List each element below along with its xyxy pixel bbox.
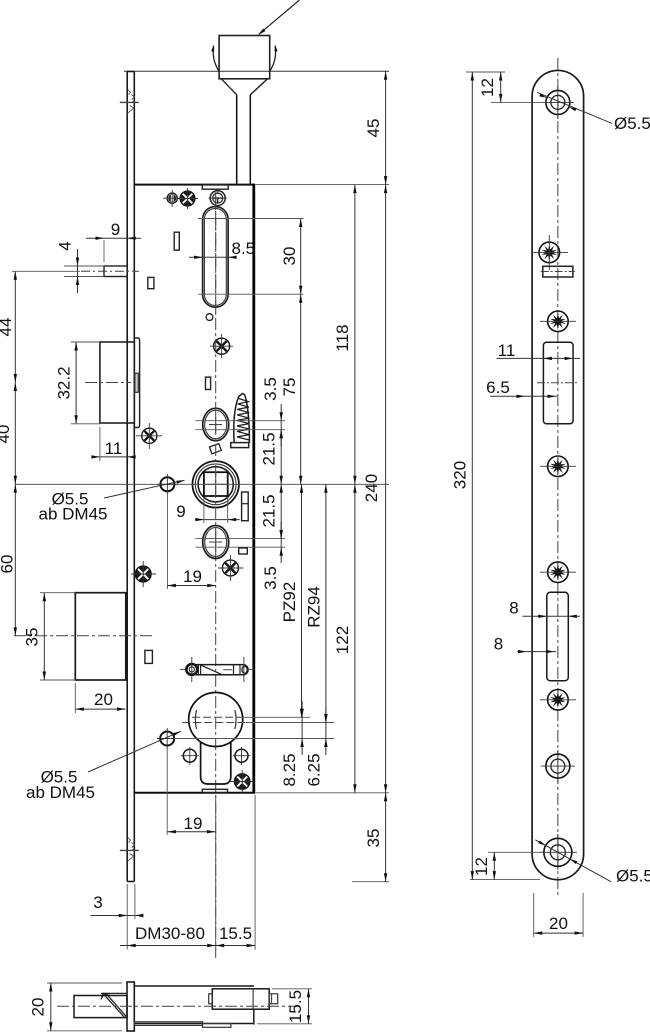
guide slot rect <box>242 492 249 521</box>
svg-text:60: 60 <box>0 555 17 574</box>
ext pin top <box>64 265 105 267</box>
dim 20 bv <box>50 983 52 1031</box>
ext 3 right <box>134 884 136 919</box>
dim 21.5 upper <box>280 430 282 485</box>
leader D5.5 upper <box>104 480 185 498</box>
cylinder stem <box>201 742 231 784</box>
ext RZ line <box>246 722 334 724</box>
svg-text:20: 20 <box>94 690 113 709</box>
screw S4 phillips <box>214 338 230 354</box>
dim 8 upper plate <box>522 615 579 617</box>
upper ellipse inner <box>205 410 227 439</box>
follower outer circle <box>193 461 239 507</box>
screw S3 slotted <box>210 191 225 206</box>
diamond tab <box>209 444 221 454</box>
bottom tab plate <box>202 789 227 793</box>
bv cylinder bump <box>212 989 269 1009</box>
dim 40 <box>14 383 16 485</box>
tab rect C <box>206 377 211 389</box>
svg-text:8.5: 8.5 <box>232 239 256 258</box>
ext hole bottom line <box>488 851 543 853</box>
bv body top edge <box>134 985 254 987</box>
plate torx 4 <box>548 562 569 583</box>
cylinder RZ chord <box>182 722 246 724</box>
ext line 3.5 lower B <box>195 546 285 548</box>
dim 15.5 bv <box>308 989 310 1024</box>
ext 35 top <box>40 592 75 594</box>
vertical centerline x215.7 <box>215 192 217 958</box>
plate slot A <box>543 266 573 277</box>
faceplate strip bottom edge <box>127 881 134 883</box>
leader D5.5 top <box>537 92 612 123</box>
plate slot A centerline <box>541 271 575 273</box>
bv bottom notch <box>203 1024 231 1028</box>
dim 15.5 bottom <box>216 945 255 947</box>
lock case right edge <box>252 184 255 794</box>
deadbolt <box>75 593 126 680</box>
latch tail pin <box>135 373 138 392</box>
ext 20 plate right <box>582 893 584 937</box>
upper oval slot inner <box>204 208 226 305</box>
lever capsule <box>186 665 248 675</box>
upper ellipse outer <box>203 408 229 441</box>
screw S2 torx dark <box>180 191 195 206</box>
ext dm x255 <box>254 795 256 950</box>
dim 3 <box>91 915 144 917</box>
ext case top <box>256 184 390 186</box>
plate torx 2 <box>548 311 569 332</box>
dim PZ92 <box>301 484 303 717</box>
spindle rod left <box>236 95 238 185</box>
oval arc center line bottom <box>198 293 304 295</box>
ext 9sq left <box>203 497 205 523</box>
plate latch window centerline <box>537 382 579 384</box>
ext 12 top line <box>466 71 505 73</box>
ext 19 lower left <box>166 747 168 836</box>
bv bump tab left <box>209 994 213 1004</box>
bv ext 15.5 top <box>272 988 312 990</box>
svg-text:11: 11 <box>105 439 123 458</box>
lever right cap <box>242 666 247 673</box>
svg-text:ab DM45: ab DM45 <box>39 505 108 524</box>
svg-text:19: 19 <box>183 567 202 586</box>
svg-text:Ø5.5: Ø5.5 <box>616 867 650 886</box>
ext dm x215.7 <box>215 795 217 950</box>
dim 8.5 <box>189 256 236 258</box>
ext dm x127 <box>126 919 128 950</box>
dim 6.25 <box>325 706 327 755</box>
svg-text:3.5: 3.5 <box>261 566 280 590</box>
svg-text:PZ92: PZ92 <box>280 582 299 623</box>
dim 35 deadbolt <box>43 593 45 680</box>
screw S8 dark phillips <box>234 774 250 790</box>
svg-text:9: 9 <box>111 220 120 239</box>
dim 32.2 <box>75 342 77 424</box>
lower ellipse outer <box>203 526 229 559</box>
svg-text:3: 3 <box>93 893 102 912</box>
svg-text:35: 35 <box>364 829 383 848</box>
dim 20 deadbolt <box>75 708 125 710</box>
dim 19 lower <box>167 831 215 833</box>
svg-text:4: 4 <box>56 241 75 250</box>
faceplate strip right edge <box>133 72 135 882</box>
upper oval centerline <box>215 196 217 316</box>
tab rect B <box>148 277 154 288</box>
dim 12 top <box>500 72 502 102</box>
latch centerline <box>85 382 131 384</box>
bv centerline <box>57 1005 300 1007</box>
dim 12 bottom <box>493 852 495 879</box>
dim 11 latch <box>92 456 135 458</box>
svg-text:6.25: 6.25 <box>305 753 324 786</box>
svg-text:8: 8 <box>494 635 503 654</box>
ext 44 top <box>12 270 80 272</box>
ext 35 bottom <box>40 679 75 681</box>
ext hole top line <box>491 101 546 103</box>
dim 118 <box>354 185 356 485</box>
svg-text:118: 118 <box>333 324 352 351</box>
spring <box>234 394 250 444</box>
plate ring screw <box>546 754 570 778</box>
screw S1 dark <box>167 193 177 203</box>
svg-text:12: 12 <box>478 78 497 97</box>
dim 20 plate <box>534 932 583 934</box>
follower square hole <box>204 472 228 496</box>
top step plate <box>202 185 228 190</box>
svg-text:19: 19 <box>184 814 203 833</box>
spring foot plate <box>231 443 249 448</box>
cylinder arc mark left <box>195 710 196 729</box>
svg-text:44: 44 <box>0 318 15 337</box>
svg-text:8: 8 <box>509 599 518 618</box>
dim 320 <box>471 72 473 880</box>
cylinder circle <box>189 693 243 747</box>
dim 122 <box>354 484 356 793</box>
faceplate strip top edge <box>127 71 134 73</box>
upper oval slot outer <box>203 207 229 308</box>
spindle funnel left <box>221 79 236 95</box>
break mark bottom <box>120 838 139 862</box>
bv bump tab right <box>269 994 278 1004</box>
lower ellipse inner <box>205 528 227 557</box>
bv ext 20 bottom <box>47 1030 122 1032</box>
ellipse tick <box>215 414 217 433</box>
svg-text:8.25: 8.25 <box>280 753 299 786</box>
lock case top edge <box>134 184 254 186</box>
svg-text:15.5: 15.5 <box>219 924 252 943</box>
tab rect A <box>174 232 179 250</box>
lower ellipse tick <box>215 531 217 552</box>
ext 3 left <box>126 884 128 919</box>
svg-text:3.5: 3.5 <box>261 377 280 401</box>
cap rotation arrow left <box>213 46 219 72</box>
small circle below oval <box>206 314 213 321</box>
svg-text:30: 30 <box>280 247 299 266</box>
screw S6 phillips <box>222 560 238 576</box>
svg-text:240: 240 <box>362 474 381 502</box>
follower crosshair <box>203 483 229 485</box>
latch bottom extension <box>71 423 100 425</box>
plate top hole ticks <box>542 101 574 103</box>
leader D5.5 lower <box>88 731 181 772</box>
dim 240 <box>385 185 387 793</box>
plate top hole <box>546 90 570 114</box>
latch bolt <box>100 342 134 423</box>
bv body bottom edge <box>134 1023 254 1025</box>
dim 35 right <box>385 793 387 882</box>
svg-text:122: 122 <box>333 626 352 654</box>
dim 9 top <box>86 237 141 239</box>
cylinder hole right <box>235 749 248 762</box>
ext line 3.5 upper B <box>195 429 285 431</box>
svg-text:DM30-80: DM30-80 <box>135 924 205 943</box>
leader arrow to cap <box>259 0 300 34</box>
svg-text:40: 40 <box>0 425 13 444</box>
svg-text:21.5: 21.5 <box>260 494 279 527</box>
ext 20 left <box>74 683 76 713</box>
svg-text:12: 12 <box>472 857 491 876</box>
bv right edge <box>253 1009 255 1024</box>
bv bump divider <box>252 989 254 1009</box>
lock case bottom edge <box>134 792 254 794</box>
follower middle circle <box>195 464 236 505</box>
svg-text:21.5: 21.5 <box>260 432 279 465</box>
plate torx 3 <box>548 456 569 477</box>
trigger pin centerline <box>81 270 139 272</box>
plate torx 5 <box>548 690 569 711</box>
dim 60 <box>14 484 16 636</box>
svg-text:45: 45 <box>364 119 383 138</box>
dim 8 lower plate <box>517 651 556 653</box>
ext 20 plate left <box>533 893 535 937</box>
cylinder hole left <box>183 749 196 762</box>
follower inner circle <box>198 467 233 502</box>
bv ext 15.5 bottom <box>257 1023 312 1025</box>
faceplate outline <box>532 70 584 879</box>
dim 8.25 <box>301 701 303 755</box>
plate latch window <box>543 342 573 423</box>
screw S7 torx dark <box>135 566 151 582</box>
plate bolt window <box>547 592 569 681</box>
svg-text:20: 20 <box>549 914 568 933</box>
svg-text:75: 75 <box>280 378 299 397</box>
lever left ring <box>186 664 197 675</box>
cylinder PZ chord <box>192 716 241 718</box>
svg-text:Ø5.5: Ø5.5 <box>614 114 650 133</box>
faceplate strip left edge <box>126 72 128 882</box>
dim 6.5 plate <box>490 395 557 397</box>
ext strip bottom right <box>352 881 389 883</box>
dim DM30-80 <box>120 945 216 947</box>
dim 3.5 upper <box>280 404 282 446</box>
plate bottom hole ticks <box>539 851 577 853</box>
svg-text:15.5: 15.5 <box>286 990 305 1023</box>
hole D5.5 lower <box>160 732 174 746</box>
screw S5 phillips <box>142 428 157 443</box>
ext case bottom <box>256 792 390 794</box>
ext line hole lower <box>175 738 335 740</box>
plate torx 1 <box>539 242 560 263</box>
dim RZ94 <box>325 484 327 722</box>
dim 9 square <box>195 519 240 521</box>
horizontal centerline y484 <box>15 483 389 485</box>
cap rotation arrow right <box>269 46 275 72</box>
spindle cap <box>219 36 270 79</box>
svg-text:ab DM45: ab DM45 <box>26 783 95 802</box>
lever dividers <box>197 665 199 675</box>
lever crosshairs <box>191 657 193 682</box>
spindle rod right <box>249 95 251 185</box>
svg-text:32.2: 32.2 <box>55 366 74 399</box>
dim 75 <box>300 294 302 484</box>
spindle funnel right <box>250 79 267 95</box>
latch top extension <box>71 341 100 343</box>
svg-text:RZ94: RZ94 <box>305 586 324 628</box>
deadbolt centerline <box>14 635 153 637</box>
oval arc center line top <box>198 218 304 220</box>
trigger pin <box>104 266 127 277</box>
cylinder arc mark right <box>235 710 236 729</box>
svg-text:35: 35 <box>23 628 42 647</box>
dim 4 <box>77 249 79 293</box>
dim 3.5 lower <box>280 522 282 563</box>
extension line top y71 <box>124 70 389 72</box>
break mark top <box>120 90 139 114</box>
ext 11 left <box>99 427 101 461</box>
bv latch <box>74 996 127 1018</box>
ext line 3.5 upper A <box>195 420 285 422</box>
hole D5.5 upper <box>160 477 174 491</box>
dim 21.5 lower <box>280 484 282 538</box>
bv faceplate <box>127 982 134 1031</box>
dim 45 <box>385 71 387 184</box>
ext 9 left <box>103 240 105 262</box>
leader D5.5 bottom <box>535 840 611 882</box>
tab rect D <box>239 548 248 554</box>
dim 44 <box>14 271 16 382</box>
ext PZ line <box>241 716 311 718</box>
ext 9sq right <box>227 497 229 523</box>
svg-text:9: 9 <box>176 502 185 521</box>
dim 30 <box>300 219 302 295</box>
plate bottom hole <box>544 838 572 866</box>
ext 12 bottom line <box>470 879 540 881</box>
ext 19 upper left <box>166 492 168 589</box>
bv ext 20 top <box>47 982 122 984</box>
ext pin bottom <box>64 276 105 278</box>
bv latch bevel <box>103 993 125 1017</box>
svg-text:20: 20 <box>29 998 48 1017</box>
ext line 3.5 lower A <box>195 538 285 540</box>
latch housing <box>135 338 140 428</box>
bv bottom bar <box>134 1022 202 1026</box>
dim 11 plate <box>497 357 581 359</box>
faceplate centerline <box>557 58 559 895</box>
dim 19 upper <box>167 585 215 587</box>
tab rect E <box>145 650 153 663</box>
svg-text:6.5: 6.5 <box>486 378 510 397</box>
svg-text:320: 320 <box>451 461 470 489</box>
svg-text:11: 11 <box>498 341 516 360</box>
